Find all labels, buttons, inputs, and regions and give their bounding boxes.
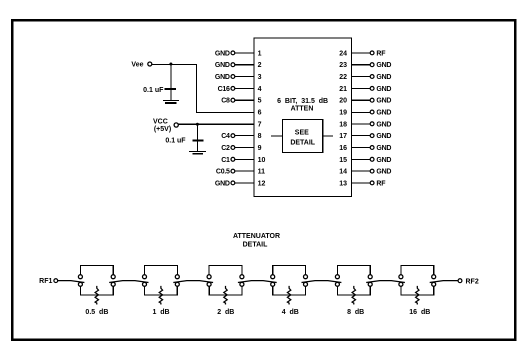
switch contact lower right xyxy=(368,282,372,286)
node GND pin 16 xyxy=(339,145,391,152)
svg-text:C8: C8 xyxy=(221,98,230,105)
svg-text:C4: C4 xyxy=(221,133,230,140)
svg-text:GND: GND xyxy=(215,62,230,69)
wire bypass top rail xyxy=(80,265,113,274)
svg-text:GND: GND xyxy=(376,121,391,128)
svg-text:(+5V): (+5V) xyxy=(154,126,171,133)
svg-text:RF: RF xyxy=(376,50,386,57)
svg-text:10: 10 xyxy=(258,157,266,164)
svg-text:GND: GND xyxy=(376,133,391,140)
svg-text:DETAIL: DETAIL xyxy=(290,139,315,146)
switch contact lower right xyxy=(111,282,115,286)
switch contact upper right xyxy=(240,275,244,279)
svg-text:GND: GND xyxy=(376,86,391,93)
node GND pin 12 xyxy=(215,180,266,187)
junction Vee/C1 xyxy=(169,63,172,66)
svg-text:ATTEN: ATTEN xyxy=(291,106,314,113)
svg-text:8: 8 xyxy=(258,133,262,140)
svg-text:16: 16 xyxy=(339,145,347,152)
switch contact upper left xyxy=(399,275,403,279)
switch contact upper right xyxy=(304,275,308,279)
node GND pin 18 xyxy=(339,121,391,128)
attenuator stage 2 dB (R3) xyxy=(207,265,244,316)
svg-text:GND: GND xyxy=(376,169,391,176)
attenuator stage 8 dB (R5) xyxy=(335,265,372,316)
node GND pin 15 xyxy=(339,157,391,164)
svg-text:1: 1 xyxy=(258,50,262,57)
node RF1 terminal xyxy=(39,278,58,285)
switch contact upper left xyxy=(78,275,82,279)
wire junction down to capacitor C1 xyxy=(170,64,172,100)
wire bypass top rail xyxy=(401,265,434,274)
svg-text:C0.5: C0.5 xyxy=(216,169,230,176)
resistor R2 xyxy=(159,286,162,305)
svg-text:GND: GND xyxy=(376,62,391,69)
switch contact upper right xyxy=(432,275,436,279)
node C1 pin 10 xyxy=(221,157,265,164)
switch contact lower right xyxy=(240,282,244,286)
svg-text:13: 13 xyxy=(339,180,347,187)
ground (Vee bypass) xyxy=(163,100,179,104)
node C16 pin 4 xyxy=(218,86,262,93)
svg-text:VCC: VCC xyxy=(153,118,168,125)
node RF pin 13 xyxy=(339,180,386,187)
svg-text:2 dB: 2 dB xyxy=(217,309,234,316)
svg-text:SEE: SEE xyxy=(295,129,309,136)
wire stage 5 to stage 6 with switch arms xyxy=(366,281,405,283)
svg-text:5: 5 xyxy=(258,98,262,105)
wire bypass top rail xyxy=(145,265,178,274)
svg-text:19: 19 xyxy=(339,110,347,117)
svg-text:0.1 uF: 0.1 uF xyxy=(143,87,164,94)
node C0.5 pin 11 xyxy=(216,169,265,176)
svg-text:3: 3 xyxy=(258,74,262,81)
wire stage 3 to stage 4 with switch arms xyxy=(238,281,277,283)
node C4 pin 8 xyxy=(221,133,261,140)
wire bypass top rail xyxy=(337,265,370,274)
switch contact lower left xyxy=(271,282,275,286)
switch contact upper right xyxy=(111,275,115,279)
svg-text:GND: GND xyxy=(376,145,391,152)
node GND pin 14 xyxy=(339,169,391,176)
switch contact upper left xyxy=(271,275,275,279)
node RF2 terminal xyxy=(458,278,479,285)
switch contact lower right xyxy=(175,282,179,286)
svg-text:GND: GND xyxy=(215,180,230,187)
ground (VCC bypass) xyxy=(189,152,206,155)
switch contact upper right xyxy=(368,275,372,279)
svg-text:7: 7 xyxy=(258,121,262,128)
switch contact lower left xyxy=(143,282,147,286)
svg-text:1 dB: 1 dB xyxy=(152,309,169,316)
svg-text:11: 11 xyxy=(258,169,266,176)
svg-text:20: 20 xyxy=(339,98,347,105)
node RF pin 24 xyxy=(339,50,386,57)
title ATTENUATOR DETAIL xyxy=(233,233,280,248)
wire resistor bottom rail xyxy=(401,287,434,295)
svg-text:4 dB: 4 dB xyxy=(282,309,299,316)
svg-text:18: 18 xyxy=(339,121,347,128)
svg-text:GND: GND xyxy=(215,50,230,57)
wire resistor bottom rail xyxy=(80,287,113,295)
switch contact lower left xyxy=(335,282,339,286)
svg-text:22: 22 xyxy=(339,74,347,81)
svg-text:23: 23 xyxy=(339,62,347,69)
wire resistor bottom rail xyxy=(145,287,178,295)
node GND pin 1 xyxy=(215,50,262,57)
svg-text:6: 6 xyxy=(258,110,262,117)
svg-text:DETAIL: DETAIL xyxy=(243,241,268,248)
node C2 pin 9 xyxy=(221,145,261,152)
node GND pin 19 xyxy=(339,110,391,117)
wire RF1 to stage 1 with switch arm xyxy=(58,281,85,283)
svg-text:GND: GND xyxy=(376,74,391,81)
svg-text:GND: GND xyxy=(376,98,391,105)
resistor R5 xyxy=(352,286,355,305)
node C8 pin 5 xyxy=(221,98,261,105)
attenuator stage 16 dB (R6) xyxy=(399,265,436,316)
resistor R3 xyxy=(224,286,227,305)
switch contact upper left xyxy=(143,275,147,279)
switch contact lower right xyxy=(432,282,436,286)
node GND pin 17 xyxy=(339,133,391,140)
svg-text:4: 4 xyxy=(258,86,262,93)
wire bypass top rail xyxy=(209,265,242,274)
switch contact upper left xyxy=(207,275,211,279)
svg-text:GND: GND xyxy=(376,110,391,117)
svg-text:GND: GND xyxy=(376,157,391,164)
switch contact upper left xyxy=(335,275,339,279)
capacitor C1 0.1 uF plate xyxy=(165,88,177,90)
svg-text:12: 12 xyxy=(258,180,266,187)
wire stage 2 to stage 3 with switch arms xyxy=(173,281,213,283)
svg-text:16 dB: 16 dB xyxy=(409,309,430,316)
junction VCC/C2 xyxy=(196,123,199,126)
switch contact lower right xyxy=(304,282,308,286)
wire stage 4 to stage 5 with switch arms xyxy=(302,281,342,283)
node GND pin 22 xyxy=(339,74,391,81)
svg-text:0.1 uF: 0.1 uF xyxy=(165,138,186,145)
attenuator stage 4 dB (R4) xyxy=(271,265,308,316)
wire VCC to pin 7 xyxy=(179,123,255,125)
node GND pin 3 xyxy=(215,74,262,81)
wire stage 6 to RF2 with switch arm xyxy=(430,281,458,283)
wire junction down to capacitor C2 xyxy=(196,124,198,152)
resistor R1 xyxy=(95,286,98,305)
wire SEE DETAIL right leader xyxy=(323,135,333,137)
attenuator stage 1 dB (R2) xyxy=(143,265,180,316)
wire SEE DETAIL left leader xyxy=(271,135,283,137)
node GND pin 20 xyxy=(339,98,391,105)
wire resistor bottom rail xyxy=(337,287,370,295)
svg-text:9: 9 xyxy=(258,145,262,152)
switch contact upper right xyxy=(175,275,179,279)
svg-text:14: 14 xyxy=(339,169,347,176)
svg-text:C16: C16 xyxy=(218,86,230,93)
svg-text:RF2: RF2 xyxy=(466,278,479,285)
svg-text:Vee: Vee xyxy=(131,62,143,69)
svg-text:0.5 dB: 0.5 dB xyxy=(85,309,108,316)
wire resistor bottom rail xyxy=(209,287,242,295)
wire resistor bottom rail xyxy=(273,287,306,295)
node Vee supply terminal xyxy=(131,62,151,69)
svg-text:RF: RF xyxy=(376,180,386,187)
node GND pin 2 xyxy=(215,62,262,69)
SEE DETAIL box xyxy=(283,120,323,153)
svg-text:GND: GND xyxy=(215,74,230,81)
resistor R4 xyxy=(287,286,290,305)
node VCC (+5V) supply terminal xyxy=(153,118,178,133)
svg-text:2: 2 xyxy=(258,62,262,69)
resistor R6 xyxy=(416,286,419,305)
svg-text:RF1: RF1 xyxy=(39,278,52,285)
IC U1 body (6-bit attenuator) xyxy=(254,38,351,197)
svg-text:6 BIT, 31.5 dB: 6 BIT, 31.5 dB xyxy=(277,98,328,105)
svg-text:ATTENUATOR: ATTENUATOR xyxy=(233,233,280,240)
switch contact lower left xyxy=(399,282,403,286)
svg-text:C1: C1 xyxy=(221,157,230,164)
switch contact lower left xyxy=(78,282,82,286)
attenuator stage 0.5 dB (R1) xyxy=(78,265,115,316)
wire bypass top rail xyxy=(273,265,306,274)
svg-text:24: 24 xyxy=(339,50,347,57)
wire Vee to pin 6 xyxy=(152,65,254,113)
switch contact lower left xyxy=(207,282,211,286)
svg-text:15: 15 xyxy=(339,157,347,164)
node GND pin 23 xyxy=(339,62,391,69)
capacitor C2 0.1 uF plate xyxy=(192,140,203,142)
svg-text:8 dB: 8 dB xyxy=(347,309,364,316)
svg-text:21: 21 xyxy=(339,86,347,93)
svg-text:C2: C2 xyxy=(221,145,230,152)
node GND pin 21 xyxy=(339,86,391,93)
wire stage 1 to stage 2 with switch arms xyxy=(109,281,148,283)
svg-text:17: 17 xyxy=(339,133,347,140)
